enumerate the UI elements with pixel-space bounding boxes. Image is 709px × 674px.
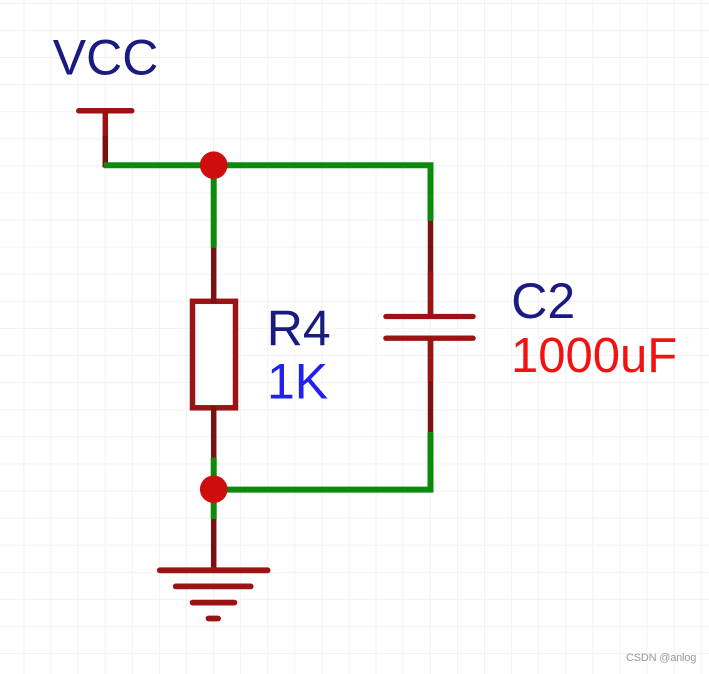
- junction top node: [200, 151, 228, 179]
- svg-text:1K: 1K: [267, 354, 328, 410]
- value label 1000uF: [511, 329, 677, 383]
- svg-text:1000uF: 1000uF: [511, 329, 677, 383]
- label R4: [267, 300, 331, 356]
- pin 2 of C2: [428, 338, 434, 381]
- wire pin 2 of R4: [211, 406, 217, 458]
- wire pin 1 of R4: [211, 247, 217, 303]
- wire top net vertical to R4: [211, 165, 217, 247]
- resistor R4: [193, 301, 236, 408]
- net label VCC: [53, 30, 159, 86]
- wire bottom net horizontal: [214, 432, 431, 489]
- power symbol VCC: [79, 111, 132, 138]
- svg-text:C2: C2: [511, 273, 575, 329]
- wire C2 top connecting segment: [428, 221, 434, 317]
- wire ground stem: [211, 519, 217, 570]
- wire C2 bottom connecting segment: [428, 338, 434, 432]
- wire VCC stem to top net: [103, 136, 109, 168]
- junction bottom node: [200, 476, 228, 504]
- label C2: [511, 273, 575, 329]
- capacitor C2: [386, 317, 473, 339]
- value label 1K: [267, 354, 328, 410]
- svg-text:VCC: VCC: [53, 30, 159, 86]
- ground: [160, 570, 268, 618]
- pin 1 of C2: [428, 272, 434, 317]
- svg-text:R4: R4: [267, 300, 331, 356]
- watermark: [626, 652, 696, 664]
- wire top net horizontal: [104, 165, 431, 221]
- wire bottom net vertical: [211, 458, 217, 520]
